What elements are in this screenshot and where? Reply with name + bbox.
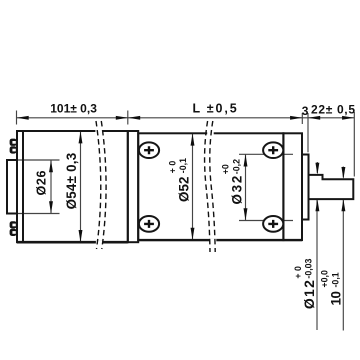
dia32 dimension line <box>245 154 247 220</box>
rear bearing housing dia26 <box>7 160 17 214</box>
screw cross bottom-right <box>268 220 278 228</box>
screw head top-right <box>263 142 283 158</box>
motor break line 2 <box>101 121 106 249</box>
terminal lug top B <box>10 146 17 153</box>
motor body dia54 <box>17 131 128 242</box>
arrow dia12 top (down) <box>315 163 319 175</box>
gap gearbox bottom <box>210 239 217 242</box>
dia32 extension lines <box>239 153 293 155</box>
10 upper arrow tail <box>342 167 344 178</box>
dia12 leader down <box>316 200 318 330</box>
motor-gearbox flange <box>128 131 138 242</box>
label dia54 +-0,3 (rotated) <box>64 153 79 210</box>
gearbox bottom edge overdraw <box>138 239 302 241</box>
svg-text:+0,0: +0,0 <box>320 270 330 287</box>
terminal slot bottom B <box>12 231 15 234</box>
dia52 dimension line <box>192 134 194 241</box>
gap motor top <box>95 130 102 133</box>
dia26 dimension line <box>50 160 52 214</box>
output shaft with flat <box>309 175 354 199</box>
dia12 upper arrow tail <box>316 162 318 173</box>
top dimension line <box>17 117 355 119</box>
gearbox front plate <box>283 133 302 240</box>
bearing boss dia32 <box>302 155 309 220</box>
arrow dia12 bottom (up) <box>315 199 319 211</box>
arrow 101 left <box>17 116 29 120</box>
svg-text:101± 0,3: 101± 0,3 <box>50 101 97 115</box>
motor break line 1 <box>96 121 101 249</box>
terminal lug bottom B <box>10 229 17 236</box>
10 leader down <box>342 200 344 331</box>
terminal slot bottom A <box>12 224 15 227</box>
arrow 22 right <box>342 116 354 120</box>
extension line motor/gear flange <box>127 111 129 125</box>
arrow dia26 up <box>49 160 53 172</box>
arrow dia32 down <box>244 208 248 220</box>
gearbox break line 2 <box>210 121 215 252</box>
arrow dia52 up <box>191 133 195 145</box>
arrow 10 top (down) <box>341 167 345 179</box>
arrow 22 left <box>308 116 320 120</box>
label 10 with tolerance (rotated) <box>320 270 344 305</box>
svg-text:+ 0: + 0 <box>293 266 303 279</box>
extension line shaft end <box>353 112 355 177</box>
label dia52 with tolerance (rotated) <box>167 158 191 202</box>
svg-text:-0,1: -0,1 <box>330 272 340 287</box>
screw cross top-right <box>268 146 278 154</box>
svg-text:22± 0,5: 22± 0,5 <box>311 103 355 117</box>
dia26 extension lines <box>7 159 60 161</box>
svg-text:Ø12: Ø12 <box>301 280 317 309</box>
svg-text:L: L <box>193 101 201 115</box>
svg-text:+0: +0 <box>221 164 231 174</box>
terminal slot top A <box>12 141 15 144</box>
svg-text:-0,2: -0,2 <box>231 159 241 174</box>
arrow L right <box>290 116 302 120</box>
extension tick at front plate face <box>301 113 303 124</box>
gap gearbox top <box>207 132 214 135</box>
gap motor bottom <box>96 241 103 244</box>
svg-text:Ø52: Ø52 <box>176 177 191 203</box>
screw cross bottom-left <box>144 220 154 228</box>
svg-text:10: 10 <box>329 291 344 306</box>
label dia32 with tolerance (rotated) <box>221 159 245 205</box>
svg-text:3: 3 <box>302 104 309 118</box>
svg-text:-0,1: -0,1 <box>178 158 188 173</box>
motor end cap inner line <box>22 131 24 242</box>
arrow dia52 down <box>191 228 195 240</box>
screw head top-left <box>139 142 159 158</box>
screw cross top-left <box>144 146 154 154</box>
terminal slot top B <box>12 149 15 152</box>
extension line left (101) <box>16 111 18 125</box>
arrow dia54 down <box>79 230 83 242</box>
arrow dia26 down <box>49 201 53 213</box>
arrow dia54 up <box>79 131 83 143</box>
terminal lug top A <box>10 139 17 146</box>
terminal lug bottom A <box>10 221 17 228</box>
screw head bottom-left <box>139 216 159 232</box>
gearbox housing dia52 <box>138 133 283 240</box>
label dia12 with tolerance (rotated) <box>293 258 317 309</box>
svg-text:Ø32: Ø32 <box>230 176 245 205</box>
motor bottom edge overdraw <box>17 241 128 244</box>
arrow L left <box>128 116 140 120</box>
arrow 101 right <box>116 116 128 120</box>
svg-text:Ø54± 0,3: Ø54± 0,3 <box>64 153 79 210</box>
svg-text:±0,5: ±0,5 <box>207 101 237 115</box>
svg-text:Ø26: Ø26 <box>35 171 49 196</box>
label dia26 (rotated) <box>35 171 49 196</box>
svg-text:+ 0: + 0 <box>167 161 177 174</box>
arrow dia32 up <box>244 154 248 166</box>
dia54 dimension line <box>80 132 82 243</box>
gearbox break line 1 <box>205 121 210 252</box>
screw head bottom-right <box>263 216 283 232</box>
svg-text:-0,03: -0,03 <box>304 258 314 278</box>
extension line boss right <box>307 113 309 152</box>
arrow 10 bottom (up) <box>341 199 345 211</box>
